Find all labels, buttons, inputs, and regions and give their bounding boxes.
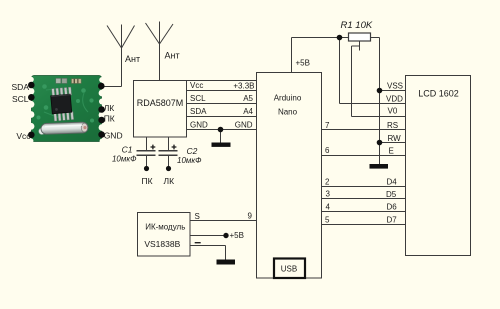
svg-text:ПК: ПК — [142, 176, 153, 186]
svg-text:D6: D6 — [387, 203, 398, 212]
svg-text:10мкФ: 10мкФ — [112, 155, 137, 164]
svg-text:RW: RW — [388, 134, 402, 143]
svg-text:D4: D4 — [387, 178, 398, 187]
svg-text:9: 9 — [248, 212, 253, 221]
svg-text:A5: A5 — [243, 94, 253, 103]
svg-text:2: 2 — [325, 178, 330, 187]
svg-text:VS1838В: VS1838В — [144, 239, 180, 249]
svg-text:SCL: SCL — [12, 94, 29, 104]
svg-text:ПК: ПК — [104, 114, 115, 124]
svg-text:C2: C2 — [187, 146, 198, 156]
svg-text:ЛК: ЛК — [104, 103, 115, 113]
svg-text:7: 7 — [325, 121, 330, 130]
svg-text:SCL: SCL — [190, 94, 206, 103]
svg-text:+5В: +5В — [230, 231, 244, 240]
svg-text:6: 6 — [325, 146, 330, 155]
svg-text:E: E — [389, 147, 394, 156]
svg-text:ИК-модуль: ИК-модуль — [145, 223, 185, 232]
svg-text:LCD 1602: LCD 1602 — [418, 89, 459, 99]
svg-text:+5В: +5В — [296, 59, 310, 68]
svg-text:5: 5 — [325, 216, 330, 225]
svg-text:ЛК: ЛК — [164, 176, 175, 186]
svg-text:SDA: SDA — [190, 107, 207, 116]
svg-text:GND: GND — [235, 121, 253, 130]
svg-text:D7: D7 — [387, 216, 398, 225]
svg-text:RDA5807M: RDA5807M — [137, 98, 184, 108]
svg-text:GND: GND — [104, 131, 123, 141]
svg-text:3: 3 — [326, 190, 331, 199]
svg-text:SDA: SDA — [12, 82, 30, 92]
svg-text:Arduino: Arduino — [274, 94, 302, 103]
svg-text:10мкФ: 10мкФ — [177, 156, 202, 165]
svg-text:RS: RS — [387, 121, 398, 130]
svg-text:Nano: Nano — [278, 108, 298, 117]
svg-text:Vcc: Vcc — [190, 81, 203, 90]
svg-text:USB: USB — [281, 264, 297, 273]
svg-text:Vcc: Vcc — [16, 131, 31, 141]
svg-text:GND: GND — [190, 121, 208, 130]
svg-text:VSS: VSS — [387, 82, 403, 91]
svg-text:V0: V0 — [388, 107, 398, 116]
svg-text:Ант: Ант — [165, 51, 180, 61]
svg-text:R1 10K: R1 10K — [341, 20, 373, 31]
svg-text:A4: A4 — [243, 107, 253, 116]
svg-text:C1: C1 — [122, 145, 133, 155]
svg-text:Ант: Ант — [125, 54, 140, 64]
svg-text:4: 4 — [326, 203, 331, 212]
svg-text:S: S — [195, 212, 200, 221]
svg-text:VDD: VDD — [386, 95, 403, 104]
svg-text:+3.3В: +3.3В — [233, 82, 254, 91]
svg-text:D5: D5 — [386, 190, 397, 199]
